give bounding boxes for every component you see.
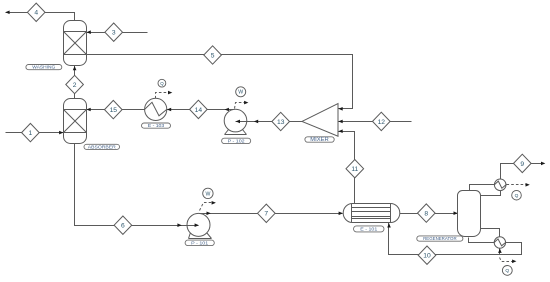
svg-text:14: 14 (195, 107, 203, 114)
svg-text:Q: Q (160, 81, 164, 86)
svg-text:7: 7 (264, 211, 268, 218)
svg-text:9: 9 (520, 161, 524, 168)
svg-text:P - 102: P - 102 (228, 138, 246, 143)
svg-text:3: 3 (112, 30, 116, 37)
svg-text:2: 2 (73, 82, 77, 89)
svg-text:1: 1 (29, 130, 33, 137)
svg-text:W: W (238, 90, 243, 96)
svg-text:WASHING: WASHING (32, 65, 55, 71)
svg-text:12: 12 (378, 119, 386, 126)
svg-text:10: 10 (423, 253, 431, 260)
svg-text:13: 13 (277, 119, 285, 126)
svg-text:Q: Q (505, 268, 509, 274)
svg-text:W: W (205, 191, 210, 197)
svg-text:Q: Q (515, 193, 519, 199)
svg-text:4: 4 (34, 10, 38, 17)
svg-text:8: 8 (424, 210, 428, 217)
svg-text:15: 15 (110, 107, 118, 114)
svg-text:MIXER: MIXER (310, 137, 329, 143)
svg-text:ABSORBER: ABSORBER (88, 144, 117, 149)
svg-text:REGENERATOR: REGENERATOR (423, 236, 457, 241)
svg-text:11: 11 (351, 166, 358, 173)
svg-text:E - 103: E - 103 (148, 123, 165, 128)
svg-text:6: 6 (121, 223, 125, 230)
svg-text:E - 101: E - 101 (360, 227, 378, 232)
svg-text:P - 101: P - 101 (191, 240, 209, 245)
svg-text:5: 5 (211, 52, 215, 59)
